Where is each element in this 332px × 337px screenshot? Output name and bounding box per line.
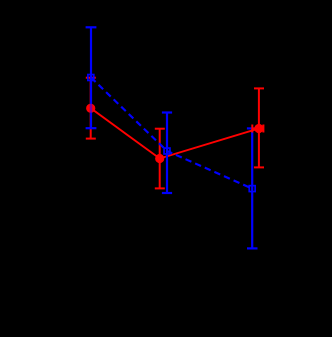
blue marker P2 (open square)	[164, 148, 170, 154]
red error bar P3 horizontal (xerr)	[252, 125, 263, 133]
blue series P3 error bar (drawn under red)	[247, 128, 258, 248]
blue marker P3 (open square)	[249, 186, 255, 192]
red error bar P1	[86, 78, 96, 139]
blue error bar P2	[162, 113, 172, 194]
blue dashed series line	[91, 78, 252, 189]
red marker P3 (filled circle)	[254, 124, 263, 133]
red error bar P2	[155, 129, 165, 189]
purple blend where blue bar crosses red marker P1	[90, 104, 92, 113]
red marker P1 (filled circle)	[86, 104, 95, 113]
red marker P2 (filled circle)	[155, 154, 164, 163]
red error bar P3 vertical	[254, 88, 264, 167]
blue error bar P1	[86, 27, 97, 128]
red series line	[91, 108, 259, 158]
blue marker P1 (open square)	[88, 75, 94, 81]
